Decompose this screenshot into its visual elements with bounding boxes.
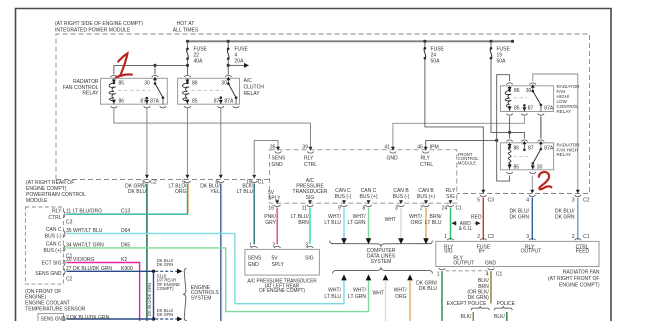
svg-text:BLK/: BLK/: [461, 314, 472, 320]
svg-text:BLK/: BLK/: [494, 314, 505, 320]
svg-text:39: 39: [302, 144, 308, 150]
svg-text:LT BLU: LT BLU: [324, 294, 341, 300]
svg-text:CLUTCH: CLUTCH: [244, 84, 265, 90]
engine coolant temperature sensor label: [25, 289, 85, 313]
transducer pin 3 connector: [305, 242, 313, 248]
wire fuse 24 to IPM pin 5 C3: [425, 58, 483, 190]
svg-text:ORG: ORG: [395, 294, 406, 300]
svg-text:& 6.1L: & 6.1L: [459, 226, 473, 232]
FCM pin 16 connector: [268, 200, 280, 211]
svg-text:4: 4: [486, 271, 489, 277]
radiator fan high relay: [500, 140, 553, 174]
radiator fan box top pin 2 C2: [477, 234, 494, 240]
wire DK BLU/DK GRN IPM 3 C2 to radiator fan ctrl feed: [555, 198, 578, 241]
svg-text:WHT/: WHT/: [353, 287, 366, 293]
svg-text:SIG: SIG: [305, 256, 314, 262]
fuse 19 50A: [490, 41, 511, 64]
svg-text:SIG: SIG: [444, 248, 453, 254]
svg-text:RLY: RLY: [421, 155, 431, 161]
computer data lines system label: [367, 248, 396, 265]
svg-text:BRN: BRN: [298, 220, 309, 226]
svg-text:RELAY: RELAY: [244, 91, 261, 97]
svg-text:BUS (+): BUS (+): [417, 194, 435, 200]
svg-text:WHT/: WHT/: [394, 287, 407, 293]
svg-text:11: 11: [302, 205, 307, 211]
ect sensor wire to splice bottom: [67, 308, 183, 321]
engine coolant temperature sensor box: [38, 314, 110, 321]
radiator fan high-low control relay: [500, 83, 553, 115]
svg-text:YEL: YEL: [210, 189, 220, 195]
transducer pin 1 connector: [249, 242, 257, 248]
PCM pin 11 rly ctrl: [48, 208, 130, 225]
svg-text:IPM: IPM: [430, 144, 439, 150]
svg-text:C1: C1: [456, 205, 463, 211]
svg-text:86: 86: [192, 80, 198, 86]
wire WHT/LT GRN FCM 8 to computer data lines: [348, 208, 369, 239]
wire BLK except police: [461, 312, 474, 321]
FCM pin 8 connector: [363, 200, 372, 211]
svg-text:RADIATOR FAN: RADIATOR FAN: [563, 270, 600, 276]
computer data lines upper brace: [330, 241, 433, 247]
radiator fan high-low control relay label: [557, 84, 581, 114]
handwritten red 1: [116, 53, 132, 77]
svg-text:85: 85: [119, 80, 125, 86]
a/c pressure transducer label: [247, 278, 317, 294]
svg-text:9: 9: [338, 205, 341, 211]
svg-text:DK GRN: DK GRN: [555, 214, 575, 220]
svg-text:87A: 87A: [544, 105, 553, 111]
svg-text:3: 3: [526, 234, 529, 240]
except police brace: [471, 307, 489, 310]
svg-text:SENS GND: SENS GND: [35, 271, 62, 277]
svg-text:5: 5: [477, 197, 480, 203]
FCM pin 11 connector: [302, 200, 314, 211]
svg-text:FEED: FEED: [576, 248, 590, 254]
wire S110 down branch: [147, 271, 154, 319]
svg-text:87: 87: [528, 105, 534, 111]
svg-text:85: 85: [514, 164, 520, 170]
svg-text:2 DK BLU/DK GRN: 2 DK BLU/DK GRN: [66, 315, 110, 321]
svg-text:C3: C3: [66, 219, 73, 225]
except police label: [447, 301, 516, 307]
wire LT BLU/ORG pin5 to PCM pin 11: [67, 183, 189, 214]
svg-text:3: 3: [395, 205, 398, 211]
arrow down can b minus into upper brace: [398, 238, 404, 244]
wire fuse 19 to relay node: [491, 58, 524, 138]
svg-text:RLY: RLY: [52, 208, 62, 214]
svg-text:C1: C1: [496, 271, 503, 277]
svg-text:24: 24: [442, 205, 448, 211]
svg-text:LT BLU: LT BLU: [324, 220, 341, 226]
integrated power module dashed boundary: [56, 34, 590, 194]
fuse 4 20A: [227, 41, 249, 64]
svg-text:85: 85: [514, 105, 520, 111]
front control module dashed box: [270, 150, 457, 203]
svg-text:SYSTEM: SYSTEM: [371, 259, 392, 265]
svg-text:SENS GND: SENS GND: [41, 316, 66, 321]
svg-text:2: 2: [572, 234, 575, 240]
svg-text:C1: C1: [258, 179, 265, 185]
svg-text:OUTPUT: OUTPUT: [521, 248, 542, 254]
engine controls system brace: [184, 269, 220, 321]
a/c pressure transducer box: [245, 249, 320, 275]
PCM pin 27 sens gnd: [35, 266, 133, 283]
svg-text:SIG: SIG: [306, 195, 315, 201]
svg-text:RLY: RLY: [304, 155, 314, 161]
svg-text:BUS (-): BUS (-): [335, 194, 352, 200]
radiator fan label: [548, 270, 600, 289]
powertrain control module label: [26, 180, 86, 204]
svg-text:RED: RED: [471, 214, 482, 220]
wire fuse4 to AC clutch relay and A/C system arrow: [227, 58, 249, 75]
svg-text:41: 41: [384, 144, 390, 150]
svg-text:C2: C2: [66, 276, 73, 282]
wire high relay 30 to IPM pin 4: [531, 176, 533, 191]
svg-text:GND: GND: [485, 260, 496, 266]
svg-text:3: 3: [572, 197, 575, 203]
PCM pin 34 can c bus plus: [44, 241, 131, 259]
svg-text:2: 2: [420, 205, 423, 211]
svg-text:85: 85: [192, 98, 198, 104]
svg-text:LT GRN: LT GRN: [348, 294, 366, 300]
svg-text:C1: C1: [583, 234, 590, 240]
integrated power module label: [55, 21, 143, 34]
wire BLK/BRN radiator fan gnd: [467, 271, 491, 303]
svg-text:4: 4: [526, 197, 529, 203]
IPM pin 6 connector: [216, 175, 225, 186]
wire high-low relay 30 to IPM pin 3 C2: [533, 74, 578, 191]
wire WHT FCM 3 to computer data lines: [385, 208, 401, 239]
wire S110 arrow to engine controls system top: [155, 258, 182, 274]
svg-text:C2: C2: [488, 234, 495, 240]
svg-text:A/C: A/C: [244, 78, 253, 84]
FCM pin 39 rly ctrl: [302, 144, 317, 168]
radiator fan bottom pin 4 C1: [486, 268, 503, 277]
IPM pin 5 C3 connector: [477, 190, 494, 204]
wire high-low relay 87A to high relay 87A: [540, 117, 542, 139]
svg-text:87: 87: [140, 98, 146, 104]
FCM pin 45 ipm rly ctrl: [417, 144, 438, 168]
svg-text:LT BLU: LT BLU: [425, 220, 442, 226]
svg-text:87A: 87A: [544, 145, 553, 151]
svg-text:WHT/: WHT/: [328, 287, 341, 293]
IPM pin 19 C1 connector: [246, 175, 264, 186]
a/c clutch relay: [178, 75, 240, 108]
FCM pin 24 C1 connector: [442, 200, 462, 211]
wire BRN/LT BLU FCM 24 to radiator fan pin 1: [425, 208, 451, 241]
svg-text:ORG: ORG: [411, 220, 422, 226]
radiator fan connector box: [436, 241, 599, 266]
svg-text:OUTPUT: OUTPUT: [453, 260, 474, 266]
svg-text:30: 30: [537, 164, 543, 170]
svg-text:ALL TIMES: ALL TIMES: [173, 27, 199, 33]
svg-text:POLICE: POLICE: [497, 301, 516, 307]
svg-text:DK BLU: DK BLU: [128, 189, 146, 195]
svg-text:DK GRN: DK GRN: [157, 312, 174, 317]
svg-text:RELAY: RELAY: [557, 152, 572, 157]
B+ bus wire: [186, 40, 514, 43]
svg-text:86: 86: [514, 88, 520, 94]
svg-text:SENS: SENS: [248, 256, 262, 262]
svg-text:CTRL: CTRL: [304, 162, 317, 168]
wire DK GRN/DK BLU radiator fan rly output: [416, 271, 442, 321]
PCM pin 20 ect sig: [41, 257, 127, 267]
svg-text:(AT RIGHT FRONT OF: (AT RIGHT FRONT OF: [548, 276, 600, 282]
svg-text:OF ENGINE COMPT): OF ENGINE COMPT): [259, 288, 305, 294]
FCM pin 35 sens gnd: [270, 144, 286, 168]
wire relay1-86 to FCM pin 39: [114, 108, 311, 148]
wire WHT/ORG FCM 2 to computer data lines: [409, 208, 426, 239]
IPM pin 5 connector: [182, 175, 191, 186]
svg-text:30: 30: [144, 80, 150, 86]
svg-text:DK GRN: DK GRN: [509, 214, 529, 220]
svg-text:TEMPERATURE SENSOR: TEMPERATURE SENSOR: [25, 306, 85, 312]
awd 6.1 annotation: [452, 221, 480, 232]
wire FCM pin 45 to relay coils node: [426, 139, 499, 148]
svg-text:EXCEPT POLICE: EXCEPT POLICE: [447, 301, 487, 307]
radiator fan box top pin 3: [526, 234, 535, 240]
svg-text:BUS (+): BUS (+): [44, 248, 62, 254]
hot at all times label: [173, 21, 199, 34]
a/c clutch relay label: [244, 78, 265, 97]
svg-text:30: 30: [221, 80, 227, 86]
splice S110: [152, 270, 180, 292]
wire FCM pin 35 to IPM pin 19 C1: [254, 141, 278, 174]
wire AC relay 87 to IPM pin 6: [220, 108, 222, 175]
svg-text:C2: C2: [150, 179, 157, 185]
arrow down can c plus into upper brace: [366, 238, 372, 244]
fuse 22 40A: [186, 41, 207, 64]
svg-text:C3: C3: [488, 197, 495, 203]
svg-text:RELAY: RELAY: [82, 90, 99, 96]
svg-text:SPLY: SPLY: [272, 262, 285, 268]
svg-text:GRY: GRY: [265, 220, 276, 226]
wire LT BLU/BRN FCM 11 to transducer pin 3: [291, 208, 310, 245]
svg-text:ENGINE COMPT): ENGINE COMPT): [559, 282, 600, 288]
svg-text:HOT AT: HOT AT: [177, 21, 196, 27]
svg-text:C13: C13: [121, 208, 130, 214]
arrow up wht/org into lower brace: [407, 274, 413, 321]
svg-text:WHT: WHT: [385, 217, 397, 223]
lower wire labels: [324, 287, 407, 300]
radiator fan high relay label: [557, 142, 581, 157]
svg-text:LT GRN: LT GRN: [348, 220, 366, 226]
wire DK BLU/DK GRN PCM 27 to splice S110: [67, 270, 154, 272]
wire AC relay 85 to IPM pin 5: [186, 108, 188, 175]
radiator fan box top pin 2 C1: [572, 234, 590, 240]
front control module label: [458, 152, 479, 166]
svg-text:CTRL: CTRL: [420, 162, 433, 168]
svg-text:ORG: ORG: [175, 189, 186, 195]
svg-text:DK GRN: DK GRN: [157, 262, 174, 267]
svg-text:2: 2: [477, 234, 480, 240]
computer data lines lower brace: [333, 268, 433, 274]
svg-text:87: 87: [528, 145, 534, 151]
svg-text:INTEGRATED POWER MODULE: INTEGRATED POWER MODULE: [55, 27, 131, 33]
PCM pin 35 can c bus minus: [45, 227, 131, 240]
radiator fan control relay label: [63, 79, 99, 96]
wire BLK/LT BLU pin 19 to transducer pin 1: [237, 183, 255, 244]
wire DK BLU/DK GRN IPM 4 to radiator fan pin 3: [509, 198, 532, 241]
arrow up can c plus into lower brace: [366, 274, 372, 280]
wire PNK/GRY FCM 16 to transducer pin 2: [264, 208, 277, 245]
wire fuse22 to relay feed node: [114, 59, 189, 75]
wire FCM pin 41 to high-low relay 87: [393, 117, 525, 148]
police brace: [494, 307, 512, 310]
svg-text:CAN C: CAN C: [46, 227, 62, 233]
svg-text:1: 1: [444, 234, 447, 240]
radiator fan box top pin 1: [444, 234, 454, 240]
powertrain control module dashed box: [25, 207, 63, 284]
wire RED IPM 5 C3 to radiator fan pin 2: [471, 198, 483, 241]
radiator fan control relay: [101, 75, 168, 108]
arrow up wht into lower brace: [383, 274, 389, 321]
svg-text:GND: GND: [248, 262, 259, 268]
IPM pin 4 connector: [526, 190, 535, 204]
svg-text:DK BLU/DK GRN: DK BLU/DK GRN: [147, 283, 152, 316]
arrow down can c minus into upper brace: [341, 238, 347, 244]
svg-text:87: 87: [214, 98, 220, 104]
svg-text:LT BLU: LT BLU: [237, 189, 254, 195]
wire WHT/LT BLU PCM 35 to computer data lines: [67, 233, 345, 303]
wire high-low relay 86 loop to coils node and high relay 85: [497, 75, 510, 181]
FCM bottom labels: [268, 178, 456, 201]
svg-text:DK BLU: DK BLU: [419, 286, 437, 292]
svg-text:86: 86: [514, 145, 520, 151]
svg-text:SYSTEM: SYSTEM: [191, 295, 212, 301]
svg-text:50A: 50A: [431, 58, 440, 64]
svg-text:BUS (-): BUS (-): [393, 194, 410, 200]
wire relay1-87 to IPM pin 1 C2: [146, 108, 148, 175]
svg-text:87A: 87A: [150, 98, 159, 104]
svg-text:MODULE: MODULE: [26, 198, 48, 204]
svg-text:11 LT BLU/ORG: 11 LT BLU/ORG: [66, 208, 102, 214]
svg-text:40A: 40A: [194, 58, 203, 64]
IPM pin 3 C2 connector: [572, 190, 590, 204]
svg-text:(AT RIGHT SIDE OF ENGINE COMPT: (AT RIGHT SIDE OF ENGINE COMPT): [55, 21, 143, 27]
svg-text:COMPT): COMPT): [157, 286, 174, 291]
svg-text:GND: GND: [387, 155, 398, 161]
svg-text:5V: 5V: [272, 256, 279, 262]
wire WHT/LT GRN PCM 34 to computer data lines: [67, 248, 369, 312]
svg-text:RELAY: RELAY: [557, 109, 572, 114]
IPM pin 1 C2 connector: [142, 175, 157, 186]
wire BLK police: [494, 312, 507, 321]
wire WHT/LT BLU FCM 9 to computer data lines: [324, 208, 344, 239]
svg-text:ECT SIG: ECT SIG: [41, 260, 61, 266]
svg-text:20A: 20A: [235, 58, 244, 64]
svg-text:B+: B+: [479, 248, 485, 254]
svg-text:WHT: WHT: [373, 290, 385, 296]
wire DK GRN/DK BLU below pin1 C2: [125, 183, 147, 321]
svg-text:C2: C2: [583, 197, 590, 203]
wire DK BLU/YEL below pin 6: [200, 183, 222, 321]
svg-text:50A: 50A: [497, 58, 506, 64]
svg-text:SENS: SENS: [272, 155, 286, 161]
svg-text:86: 86: [119, 98, 125, 104]
radiator fan bottom pin 1: [437, 268, 488, 277]
svg-text:BUS (-): BUS (-): [45, 233, 62, 239]
wire high-low relay 85 to high relay 86: [509, 117, 511, 139]
svg-text:45: 45: [417, 144, 423, 150]
svg-text:8: 8: [363, 205, 366, 211]
svg-text:MODULE: MODULE: [458, 160, 476, 165]
svg-text:BUS (+): BUS (+): [360, 194, 378, 200]
svg-text:CAN C: CAN C: [46, 241, 62, 247]
arrow up can c minus into lower brace: [341, 274, 347, 280]
FCM pin 41 gnd: [384, 144, 398, 161]
fuse 24 50A: [424, 41, 445, 64]
svg-text:1: 1: [437, 271, 440, 277]
svg-text:87A: 87A: [224, 98, 233, 104]
wire VIO/ORG PCM 20 down: [67, 263, 140, 321]
FCM pin 9 connector: [338, 200, 347, 211]
arrow down can b plus into upper brace: [423, 238, 429, 244]
svg-text:SIG: SIG: [446, 194, 455, 200]
FCM pin 3 connector: [395, 200, 404, 211]
svg-text:16: 16: [268, 205, 274, 211]
svg-text:30: 30: [526, 88, 532, 94]
svg-text:35: 35: [270, 144, 276, 150]
FCM pin 2 connector: [420, 200, 429, 211]
handwritten red 2: [539, 172, 552, 189]
svg-text:CTRL: CTRL: [48, 215, 61, 221]
svg-text:GND: GND: [272, 162, 283, 168]
transducer pin 2 connector: [272, 242, 280, 248]
